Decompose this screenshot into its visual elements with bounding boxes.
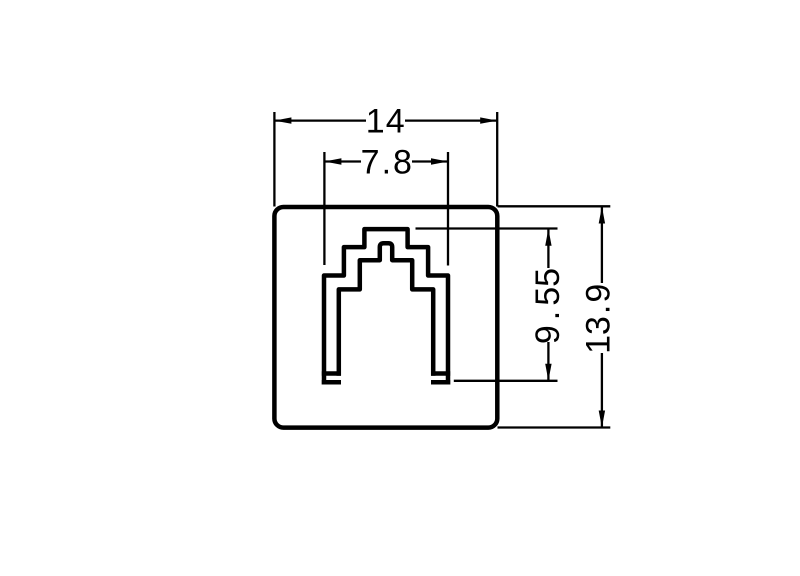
svg-text:7.8: 7.8 [361,144,412,182]
svg-text:9.55: 9.55 [529,268,567,344]
svg-text:13.9: 13.9 [580,284,618,354]
svg-text:14: 14 [366,103,405,141]
